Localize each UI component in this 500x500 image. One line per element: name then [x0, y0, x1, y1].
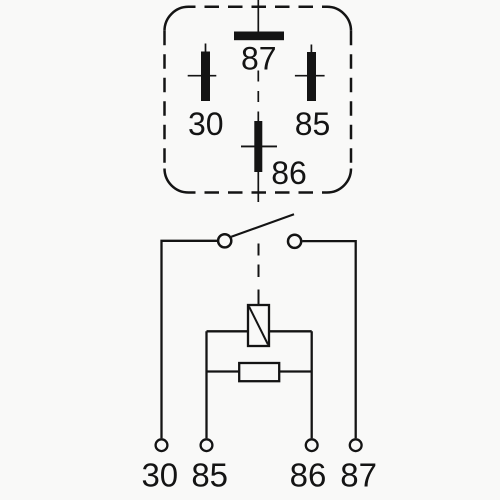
pin 86 lead: [257, 172, 259, 202]
mechanical link (dashed) from switch to coil: [258, 244, 260, 256]
relay socket outline (dashed rounded box): [165, 7, 352, 193]
pin 86 tick: [241, 145, 277, 147]
pin 85 blade: [307, 52, 316, 101]
resistor R1 (parallel with coil): [239, 363, 279, 381]
pin 87 blade: [234, 32, 284, 41]
wire: lower rail with resistor: [207, 370, 312, 372]
pin 86 blade: [254, 121, 262, 172]
wire: upper coil rail 85-86: [207, 330, 312, 332]
svg-text:30: 30: [141, 457, 178, 494]
svg-text:30: 30: [188, 106, 224, 142]
pin 85 lead: [310, 45, 312, 54]
wire: right vertical to terminal 86: [311, 331, 313, 438]
pin 30 blade: [201, 52, 210, 102]
pin 30 tick: [188, 75, 217, 77]
terminal 85: [201, 439, 213, 451]
wire: left vertical to terminal 85: [205, 331, 207, 438]
svg-text:85: 85: [295, 106, 331, 142]
switch contact (right circle): [288, 235, 301, 248]
terminal 86: [306, 439, 318, 451]
terminal 87: [350, 439, 362, 451]
wire: right from NO contact to terminal 87: [302, 241, 356, 438]
switch arm: [231, 214, 294, 236]
wire: dashed centerline between 87 and 86: [257, 71, 259, 122]
pin 85 tick: [295, 75, 325, 77]
svg-text:86: 86: [271, 155, 307, 191]
coil K1 (box with diagonal): [248, 305, 269, 346]
pin 30 lead: [205, 44, 207, 53]
wire: left from common contact to terminal 30: [162, 241, 218, 438]
svg-text:87: 87: [340, 457, 377, 494]
svg-text:86: 86: [290, 457, 327, 494]
terminal 30: [156, 439, 168, 451]
svg-text:85: 85: [191, 457, 228, 494]
switch contact (left circle): [218, 234, 231, 247]
wire: center lead above pin 87: [257, 0, 259, 32]
